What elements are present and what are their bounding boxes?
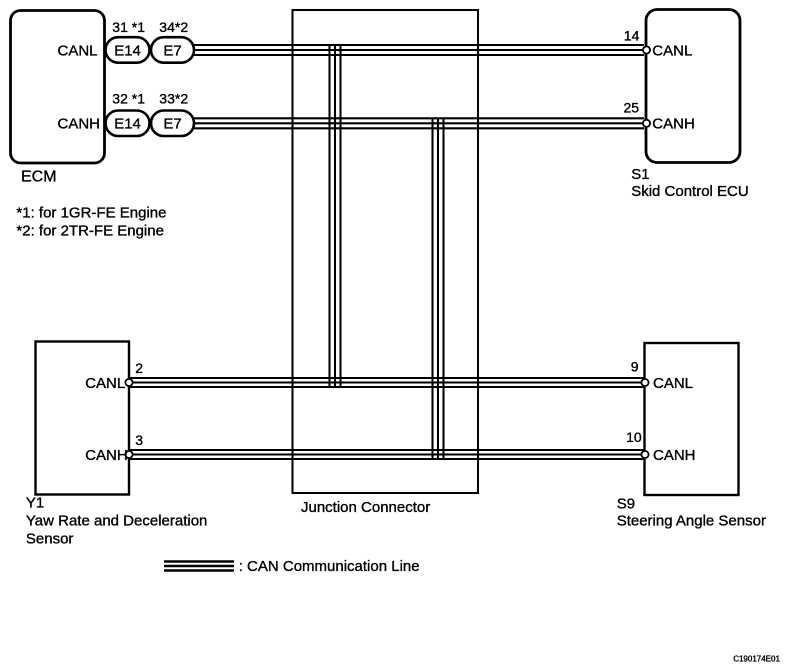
svg-text:2: 2 — [135, 360, 143, 376]
pin label 3 — [135, 432, 143, 448]
svg-text:32 *1: 32 *1 — [112, 90, 145, 106]
legend text — [239, 558, 420, 575]
node CANH at Y1 — [85, 447, 128, 464]
S1 label — [631, 166, 749, 200]
pin label 34*2 — [159, 19, 188, 35]
node CANL at ECM — [58, 42, 98, 59]
svg-text:*2: for 2TR-FE Engine: *2: for 2TR-FE Engine — [16, 223, 164, 240]
Y1 label — [26, 495, 208, 548]
pin label 33*2 — [159, 90, 188, 106]
svg-text:Yaw Rate and Deceleration: Yaw Rate and Deceleration — [26, 513, 208, 530]
svg-text:CANL: CANL — [58, 42, 98, 59]
connector E7 pin 34 (CANL row) — [151, 37, 194, 63]
node CANL at Y1 — [85, 375, 125, 392]
svg-text:S1: S1 — [631, 166, 649, 183]
svg-text:C190174E01: C190174E01 — [733, 654, 780, 663]
svg-text:Sensor: Sensor — [26, 530, 74, 547]
pin 14 terminal circle at S1 — [643, 46, 650, 53]
svg-text:25: 25 — [624, 100, 640, 116]
wire CANH ECM to S1 (top) — [193, 118, 644, 128]
connector E14 pin 31 (CANL row) — [106, 37, 150, 63]
wire CANL vertical branch in junction connector — [330, 46, 341, 387]
pin label 2 — [135, 360, 143, 376]
svg-text:E14: E14 — [114, 42, 141, 59]
node CANH at S9 — [653, 447, 696, 464]
pin label 31 *1 — [112, 19, 145, 35]
svg-text:33*2: 33*2 — [159, 90, 188, 106]
pin 25 terminal circle at S1 — [643, 120, 650, 127]
note *2 — [16, 223, 164, 240]
svg-text:E14: E14 — [114, 116, 141, 133]
ECM label — [21, 169, 57, 186]
svg-text:9: 9 — [631, 359, 639, 375]
svg-text:3: 3 — [135, 432, 143, 448]
svg-text:CANH: CANH — [653, 447, 696, 464]
svg-text:CANL: CANL — [652, 42, 692, 59]
node CANL at S9 — [653, 375, 693, 392]
pin label 32 *1 — [112, 90, 145, 106]
pin label 25 — [624, 100, 640, 116]
node CANH at S1 — [652, 116, 695, 133]
wire CANL Y1 to S9 (bottom) — [130, 378, 645, 387]
svg-text:14: 14 — [624, 28, 640, 44]
wire CANH vertical branch in junction connector — [433, 119, 444, 459]
wire CANL ECM to S1 (top) — [193, 45, 644, 55]
svg-text:: CAN Communication Line: : CAN Communication Line — [239, 558, 420, 575]
figure code — [733, 654, 780, 663]
pin 9 terminal circle at S9 — [641, 379, 648, 386]
svg-text:Y1: Y1 — [26, 495, 44, 512]
svg-text:Steering Angle Sensor: Steering Angle Sensor — [617, 513, 766, 530]
node CANL at S1 — [652, 42, 692, 59]
legend CAN line symbol — [164, 562, 234, 571]
svg-text:CANH: CANH — [652, 116, 695, 133]
svg-text:Skid Control ECU: Skid Control ECU — [631, 183, 749, 200]
pin 3 terminal circle at Y1 — [125, 451, 132, 458]
svg-text:CANH: CANH — [58, 116, 101, 133]
svg-text:CANL: CANL — [653, 375, 693, 392]
pin 10 terminal circle at S9 — [641, 451, 648, 458]
pin 2 terminal circle at Y1 — [125, 379, 132, 386]
svg-text:Junction Connector: Junction Connector — [301, 499, 430, 516]
pin label 10 — [626, 429, 642, 445]
connector E14 pin 32 (CANH row) — [106, 111, 150, 137]
pin label 9 — [631, 359, 639, 375]
note *1 — [16, 205, 166, 222]
ECM box — [11, 11, 105, 164]
svg-text:31 *1: 31 *1 — [112, 19, 145, 35]
S9 label — [617, 495, 766, 529]
svg-text:S9: S9 — [617, 495, 635, 512]
svg-text:CANL: CANL — [85, 375, 125, 392]
ECU S1 box — [646, 10, 740, 163]
sensor S9 box — [645, 343, 739, 495]
pin label 14 — [624, 28, 640, 44]
svg-text:ECM: ECM — [21, 169, 57, 186]
svg-text:34*2: 34*2 — [159, 19, 188, 35]
wire CANH Y1 to S9 (bottom) — [130, 450, 645, 459]
node CANH at ECM — [58, 116, 101, 133]
svg-text:10: 10 — [626, 429, 642, 445]
junction connector box — [293, 10, 479, 493]
svg-text:E7: E7 — [163, 42, 181, 59]
svg-text:CANH: CANH — [85, 447, 128, 464]
junction connector label — [301, 499, 430, 516]
connector E7 pin 33 (CANH row) — [151, 111, 194, 137]
sensor Y1 box — [36, 342, 130, 495]
svg-text:E7: E7 — [163, 116, 181, 133]
svg-text:*1: for 1GR-FE Engine: *1: for 1GR-FE Engine — [16, 205, 166, 222]
